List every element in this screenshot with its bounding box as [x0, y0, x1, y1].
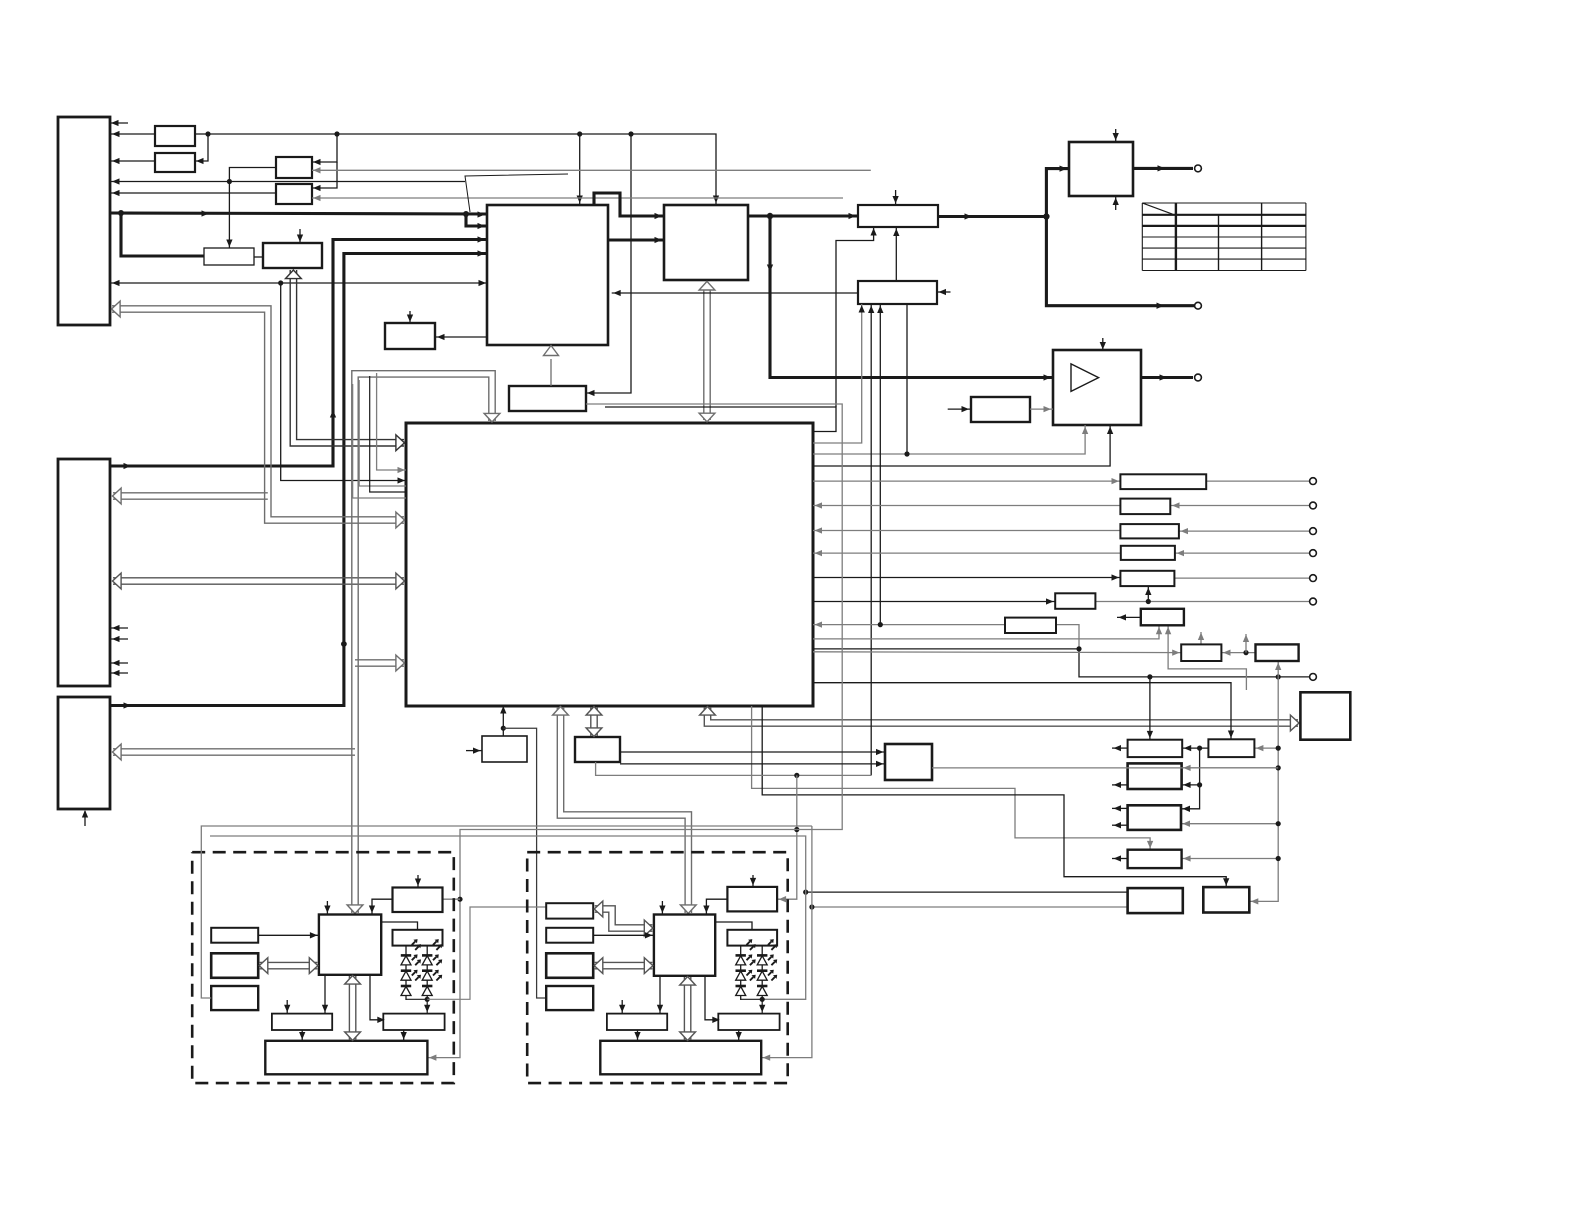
wire x337 to B1 right — [312, 134, 337, 165]
wire term to R4 — [1175, 550, 1309, 556]
box T3 — [1128, 763, 1182, 789]
box T6 — [1128, 888, 1183, 913]
bus M1b-IC double — [259, 958, 318, 974]
box K — [1069, 142, 1133, 196]
module1 box Sa1 — [272, 1014, 332, 1030]
branch x1278 y823.7 — [1181, 821, 1281, 827]
thick wire node to K — [1046, 165, 1069, 216]
gray wire into CB y498 — [353, 384, 406, 498]
box A1 — [155, 126, 195, 146]
wire term to R3 — [1179, 528, 1309, 534]
thick wire node to output term — [1046, 217, 1196, 309]
bus A head into CB left y520 — [396, 512, 405, 528]
junction dot y134 x631 — [628, 131, 633, 136]
wire R2 to CB — [813, 502, 1120, 508]
module1 LED wiring — [406, 946, 430, 1014]
wire B1 left down to C1 top — [226, 168, 276, 249]
wire box W feeds — [620, 749, 885, 755]
wire R5 to term — [1174, 577, 1309, 579]
bus B shaft (D1 to CB) — [290, 270, 404, 446]
wire Sa1 to WB1 — [299, 1030, 305, 1041]
module2 wide box WB2 — [600, 1041, 761, 1075]
wire IC to Sb2 — [705, 976, 720, 1023]
main bus arm into J3 — [113, 744, 356, 760]
module2 box L3 — [546, 953, 593, 978]
module1 LED feedback wire — [427, 907, 546, 999]
branch x1278 y767.9 — [1182, 765, 1281, 771]
wire A2 to J1 — [110, 158, 155, 164]
power stub module2 IC top — [659, 901, 665, 915]
power stub amp top — [1100, 338, 1106, 350]
wire x796 down — [777, 775, 799, 902]
wire M1a to IC — [258, 932, 319, 938]
box R4 — [1121, 546, 1175, 560]
bus IC-WB2 double arrow — [680, 977, 696, 1041]
junction dot y134 x579 — [577, 131, 582, 136]
terminal circle out1 — [1195, 165, 1202, 172]
connector J3 (left bottom) — [58, 697, 110, 809]
thick wire F to I — [748, 213, 858, 219]
module1 box M1a — [211, 928, 258, 943]
wire CB to R5 — [813, 574, 1120, 580]
box W — [885, 744, 932, 780]
box R5 — [1120, 571, 1174, 586]
box G — [385, 323, 435, 349]
power stub I top — [892, 190, 898, 204]
terminal R6 — [1310, 598, 1317, 605]
wire x805 riser — [210, 836, 806, 999]
dangling out arrow y858.5 — [1112, 855, 1128, 861]
dangling out arrow y808.4 — [1112, 805, 1128, 811]
box T7 — [1203, 887, 1249, 912]
wire x811 down to WB2 — [761, 826, 812, 1061]
wire T5 top feed — [752, 706, 1154, 850]
box D1 — [263, 243, 322, 268]
dangling out arrow y748.1 — [1112, 745, 1128, 751]
stub up from S1 top — [1198, 632, 1204, 644]
wire x1199 to T3 — [1182, 782, 1200, 788]
module2 box L2 — [546, 928, 593, 943]
vertical x631 to H right — [586, 134, 631, 396]
wire x337 to B2 right — [312, 162, 337, 191]
terminal R3 — [1310, 528, 1317, 535]
module2 dashed boundary — [527, 852, 788, 1083]
block F — [664, 205, 748, 280]
black wire into CB y492 — [370, 376, 406, 492]
wire x1079 to term y677 — [1079, 649, 1309, 680]
terminal R1 — [1310, 478, 1317, 485]
box C1 (thin) — [204, 248, 254, 265]
module1 dashed boundary — [192, 852, 454, 1083]
wire J left long — [612, 290, 858, 296]
wire T1-T2 tee — [1182, 745, 1208, 751]
gray trunk x1278 down — [1249, 677, 1278, 905]
wire CB to R6 — [813, 598, 1055, 604]
stub K bottom — [1113, 197, 1119, 210]
terminal y677 — [1310, 674, 1317, 681]
wire J1 y283 — [110, 280, 283, 286]
main bus trunk — [352, 371, 495, 913]
module2 box L4 — [546, 986, 593, 1010]
bus L1-IC zigzag — [594, 901, 653, 936]
main bus arm into CB left y663 — [355, 655, 405, 671]
thick W1 branch to E pin2 — [466, 214, 487, 229]
box B2 — [276, 184, 312, 204]
wire CB y454 to amp bottom — [813, 425, 1088, 457]
box T5 — [1128, 850, 1182, 868]
long wire y134 to F top — [208, 134, 719, 204]
wire C1 to D1 — [254, 256, 263, 258]
module2 LED box — [727, 930, 777, 946]
wire R3 to CB — [813, 527, 1120, 533]
wire N to amp — [1030, 406, 1053, 412]
connector J1 (left top) — [58, 117, 110, 325]
wire V2 bottom distribution — [596, 762, 872, 778]
wire Sb1 to WB1 — [401, 1030, 407, 1041]
module1 box Sb1 — [383, 1014, 444, 1030]
bus A head into J1 — [112, 301, 121, 317]
module2 box L1 — [546, 903, 593, 918]
bus A arm to J2 — [113, 488, 268, 504]
box V1 — [482, 736, 527, 762]
wire H out x842 — [586, 404, 842, 830]
module1 wide box WB1 — [265, 1041, 427, 1075]
wire IC to Sa1 — [322, 975, 328, 1014]
bus F-CB vertical — [699, 281, 715, 421]
wire box W feed2 — [620, 761, 885, 767]
power stub D1 top — [297, 229, 303, 243]
stub into J1 pin1 — [110, 120, 128, 126]
bus A shaft (J1-J2-CB) — [112, 306, 404, 523]
wire to E top — [577, 134, 583, 204]
stub pin into J2 #2 — [110, 636, 128, 642]
wire node to S2 bottom — [1275, 662, 1281, 677]
wire R1 to term — [1206, 480, 1309, 482]
box Z — [1300, 692, 1350, 739]
bus module2 corridor — [553, 707, 697, 914]
bus B head into CB left y443 — [396, 435, 405, 451]
wire W right to T3 chain — [932, 767, 1278, 769]
amp block M — [1053, 350, 1141, 425]
wire CB y431 up to I bottom — [605, 407, 836, 432]
wire V1 node to module2 L4 — [503, 728, 546, 998]
stub pin into J2 #1 — [110, 625, 128, 631]
wire y829 left — [427, 830, 796, 1061]
stub TR1 top — [415, 875, 421, 888]
box H — [509, 386, 586, 411]
module1 box TR1 — [393, 888, 443, 913]
wire L2 to IC — [593, 932, 654, 938]
stub into V1 left — [466, 747, 482, 753]
wire A1 right to bus node — [195, 131, 211, 136]
bus V2 vertical double arrow — [586, 707, 602, 737]
wire V1 top to CB — [500, 705, 506, 737]
terminal R5 — [1310, 575, 1317, 582]
terminal R4 — [1310, 550, 1317, 557]
box R7 — [1141, 609, 1184, 626]
bus B head into D1 bottom — [286, 270, 302, 279]
module2 LED string B — [757, 939, 777, 1000]
module2 LED string A — [736, 939, 756, 1000]
box V2 — [575, 737, 620, 762]
box R6 — [1055, 593, 1095, 609]
module1 LED string A — [401, 939, 421, 1000]
wire Sb2 to WB2 — [736, 1030, 742, 1041]
module2 IC — [654, 915, 715, 976]
dangling out arrow y784.9 — [1112, 782, 1128, 788]
wire CB y466 to amp bottom — [813, 425, 1113, 466]
bus L3-IC double — [594, 958, 653, 974]
wire node to A2 right — [195, 134, 208, 164]
box R1 — [1120, 474, 1206, 489]
wire R7 bottom feed2 — [1165, 625, 1246, 690]
wire TR2 to IC top — [703, 899, 727, 914]
wire x280 down to CB — [281, 283, 406, 484]
box B1 — [276, 157, 312, 178]
box N — [971, 397, 1030, 422]
amp triangle — [1071, 364, 1099, 392]
wire x460 to TR1 — [443, 898, 461, 900]
wire R4 to CB — [813, 550, 1121, 556]
wire CB y443 to J bottom — [813, 304, 865, 443]
box T2 — [1208, 739, 1254, 757]
dangling out arrow y825.2 — [1112, 822, 1128, 828]
wire IC right to LED box — [381, 922, 417, 930]
signal table grid — [1142, 203, 1306, 271]
module2 LED wiring — [741, 997, 766, 1014]
wire x836 continuation — [836, 227, 877, 407]
wire Sa2 to WB2 — [634, 1030, 640, 1041]
wire Q1 to CB y625 — [813, 621, 1005, 627]
terminal circle out2 — [1195, 302, 1202, 309]
power stub module1 IC top — [324, 901, 330, 915]
wire CB y482 to R1 — [813, 478, 1120, 484]
thick wire x770 to amp — [767, 216, 1053, 381]
wire R6 to term — [1095, 599, 1309, 604]
wire T7 top feed — [762, 706, 1229, 887]
wire A1 to J1 — [110, 131, 155, 137]
wire IC to Sb1 — [370, 975, 385, 1023]
wire B2 left to J1 — [110, 190, 276, 196]
stub TR2 top — [750, 875, 756, 887]
stub Sa2 top — [619, 1000, 625, 1014]
block arrow H to E bottom — [544, 346, 559, 387]
wire Q1 right to x1079 — [1056, 625, 1079, 649]
wire CB y639 to R7 bottom — [813, 625, 1162, 639]
central block CB (main controller) — [406, 423, 813, 706]
module1 box M1c — [211, 986, 258, 1010]
wire T6 y907 — [809, 904, 1127, 909]
box S2 — [1256, 644, 1299, 661]
wire CB y652 to S1 — [813, 649, 1181, 655]
bus IC-WB1 double arrow — [345, 976, 361, 1041]
wire term to R2 — [1170, 502, 1309, 508]
gray wire into B1 right — [312, 167, 871, 173]
connector J2 (left middle) — [58, 459, 110, 686]
box J — [858, 281, 937, 304]
gray wire into B2 right — [312, 195, 843, 201]
wire E to G — [435, 334, 487, 340]
stub into N left — [948, 406, 971, 412]
wire J bottom x871 long — [868, 304, 874, 775]
module1 LED string B — [422, 939, 442, 1000]
wire CB y683 to T2 top — [813, 683, 1234, 740]
power stub K top — [1113, 129, 1119, 141]
box S1 — [1181, 644, 1221, 661]
gray wire into CB y470 — [377, 373, 406, 473]
module1 LED box — [393, 930, 443, 946]
module1 box M1b — [211, 953, 258, 978]
wire x1199 down — [1181, 748, 1202, 812]
wire S1-S2 node — [1221, 649, 1255, 655]
power stub G top — [407, 311, 413, 323]
main bus head into module1 IC — [347, 905, 363, 914]
callout line — [465, 174, 568, 212]
box Q1 — [1005, 618, 1056, 633]
thick notch wire E to F — [594, 193, 664, 219]
thick wire W3 J3 to E — [110, 250, 487, 708]
thick wire W1 J1 to E — [110, 210, 487, 218]
thick W1 branch to C1 — [121, 213, 204, 256]
wire node up into R5 bottom — [1145, 586, 1151, 601]
wire TR1 to IC top — [369, 899, 393, 914]
thick wire K to term — [1133, 165, 1193, 171]
wire R7 left dangling — [1117, 614, 1141, 620]
box I — [858, 205, 938, 227]
thick wire amp to term — [1141, 374, 1193, 380]
power stub into J3 bottom — [82, 810, 88, 826]
wire J1 y181 long — [110, 178, 465, 184]
thick wire I out to node — [938, 213, 1050, 219]
bus C double-headed J2-CB — [113, 573, 405, 589]
thick wire W2 J2 to E — [110, 236, 487, 469]
stub pin into J2 #4 — [110, 670, 128, 676]
box T1 — [1128, 740, 1183, 757]
block E (gate array) — [487, 205, 608, 345]
wire IC to Sa2 — [657, 976, 663, 1014]
box R3 — [1120, 524, 1179, 538]
module1 IC — [319, 915, 381, 975]
node x337 y134 — [334, 131, 339, 136]
branch x1278 y858.5 — [1182, 855, 1281, 861]
wire y283 cont to E — [281, 280, 487, 286]
wire M1c left riser — [201, 826, 812, 998]
box R2 — [1120, 499, 1170, 514]
terminal circle audio out — [1195, 374, 1202, 381]
wire J right stub — [937, 289, 951, 295]
box T4 — [1128, 805, 1181, 830]
module2 box TR2 — [727, 887, 777, 912]
wire T6 y892 — [803, 890, 1127, 895]
wire IC right to LED box2 — [715, 922, 752, 930]
wire J top to I bottom — [893, 227, 899, 281]
bus Z (CB to box Z) — [700, 707, 1299, 731]
gray wire into CB y486 — [359, 380, 406, 486]
branch x1278 y748.1 — [1254, 745, 1280, 751]
stub pin into J2 #3 — [110, 660, 128, 666]
main bus head into CB top — [484, 413, 500, 422]
wire J bottom x880 to y625 — [877, 304, 883, 625]
thick wire E to F — [608, 237, 664, 243]
box A2 — [155, 153, 195, 172]
terminal R2 — [1310, 502, 1317, 509]
module2 box Sa2 — [607, 1014, 667, 1030]
wire J bottom x907 — [906, 304, 908, 454]
stub Sa1 top — [284, 1000, 290, 1014]
wire node to T1 top — [1147, 677, 1153, 740]
stub up from node x1246 — [1243, 634, 1249, 653]
wire CB y649 to term line — [813, 646, 1082, 651]
module2 box Sb2 — [718, 1014, 779, 1030]
